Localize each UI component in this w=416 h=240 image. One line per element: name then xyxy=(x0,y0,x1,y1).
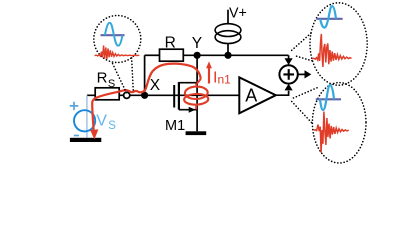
svg-text:R: R xyxy=(97,69,108,86)
svg-text:X: X xyxy=(150,77,161,94)
svg-text:A: A xyxy=(245,86,257,106)
svg-text:V+: V+ xyxy=(229,6,247,22)
svg-text:S: S xyxy=(108,78,115,90)
svg-text:M1: M1 xyxy=(165,118,185,134)
svg-text:R: R xyxy=(165,34,176,51)
svg-text:Y: Y xyxy=(192,35,202,52)
svg-text:S: S xyxy=(108,120,116,132)
svg-text:n1: n1 xyxy=(218,73,232,87)
svg-text:V: V xyxy=(96,113,107,130)
